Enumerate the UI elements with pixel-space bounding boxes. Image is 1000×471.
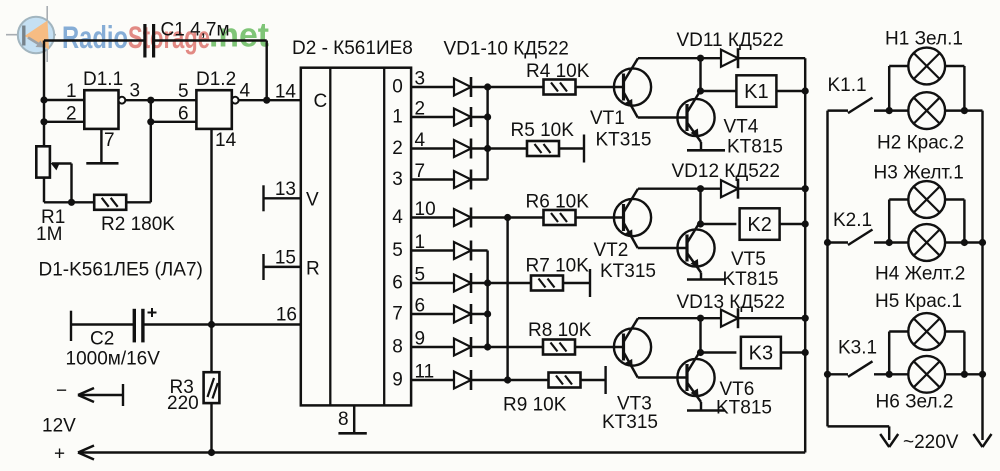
relay K2 [701,208,809,240]
switch contact K3.1 [828,361,873,377]
svg-text:KT315: KT315 [596,130,652,151]
label R8 10K [528,320,592,341]
svg-text:D1.1: D1.1 [83,69,123,90]
svg-text:D2 - К561ИЕ8: D2 - К561ИЕ8 [292,38,413,59]
wire lamp pair loop [889,200,964,243]
label 1000м/16V [66,349,161,370]
svg-text:VT1: VT1 [590,108,625,129]
svg-text:R2 180K: R2 180K [101,214,175,235]
pin label 16 [276,305,297,326]
svg-text:R6 10K: R6 10K [526,192,590,213]
pin label 14 clock [275,82,297,103]
ground at power transistor emitter [687,149,725,152]
IC output label 0 [392,77,403,98]
wire D1.1 input pin 1 [40,96,84,103]
svg-text:4: 4 [240,81,251,102]
wire relay supply rail to +12V [804,58,806,452]
svg-text:R4 10K: R4 10K [526,61,590,82]
label C1 4,7м [161,20,230,41]
label K3.1 [838,338,877,359]
svg-text:7: 7 [392,304,403,325]
wire and stub pin 15 R input [264,254,301,280]
svg-text:H2 Крас.2: H2 Крас.2 [877,133,964,154]
svg-text:8: 8 [392,337,403,358]
IC input label V [306,190,319,211]
decorative watermark logo RadioStorage.net [6,6,269,62]
wire and stub pin 13 V input [264,185,301,211]
svg-text:K1.1: K1.1 [828,75,867,96]
label H5 Крас.1 [875,291,962,312]
pin label 5 [415,265,426,286]
svg-text:+: + [54,444,65,465]
label VT5 [731,249,766,270]
label H4 Желт.2 [875,264,965,285]
node diode cathode on supply rail [0,0,1,1]
wire lamp pair feed [874,371,986,378]
svg-text:15: 15 [275,248,296,269]
diode VD7 [411,273,488,293]
pin label 4 [240,81,251,102]
svg-text:R7 10K: R7 10K [526,256,590,277]
svg-text:~220V: ~220V [903,432,959,453]
label VT2 [594,240,629,261]
svg-text:16: 16 [276,305,297,326]
svg-text:KT315: KT315 [602,412,658,433]
label VT1 [590,108,625,129]
resistor R8 10K [488,340,624,355]
svg-text:V: V [306,190,319,211]
wire D1.2 output to counter clock node [239,97,301,104]
capacitor C1 [145,24,154,58]
svg-text:H1 Зел.1: H1 Зел.1 [885,29,963,50]
svg-text:13: 13 [275,179,296,200]
svg-text:5: 5 [392,240,403,261]
svg-text:K2.1: K2.1 [833,210,872,231]
pin label 1 [66,81,77,102]
pin label 2 [415,99,426,120]
label D1-K561ЛЕ5 (ЛА7) [39,260,203,281]
svg-text:14: 14 [215,130,237,151]
bus diodes VD5 VD10 common [504,214,511,384]
svg-text:R: R [306,259,320,280]
svg-text:3: 3 [130,81,141,102]
IC output label 9 [392,370,403,391]
IC output label 8 [392,337,403,358]
pin label 5 [178,81,189,102]
svg-text:VT4: VT4 [724,117,759,138]
label K1.1 [828,75,867,96]
svg-text:K3.1: K3.1 [838,338,877,359]
IC output label 7 [392,304,403,325]
label R1 [41,207,65,228]
resistor R3 220 vertical [204,325,220,453]
resistor R4 10K [488,80,624,95]
lamp H5 top [908,313,945,350]
node diode cathode on supply rail [802,315,809,322]
label 1M [36,224,62,245]
IC D2 counter K561IE8 body [301,68,411,406]
svg-text:C1 4,7м: C1 4,7м [161,20,230,41]
svg-text:KT815: KT815 [723,269,779,290]
svg-text:KT315: KT315 [600,261,656,282]
wire counter pin 16 [212,323,301,325]
diode VD1 [411,77,488,97]
svg-text:3: 3 [392,169,403,190]
pin label 14 of D1.2 [215,130,237,151]
IC input label C [314,91,328,112]
label C2 [90,329,114,350]
pin label 3 [130,81,141,102]
svg-text:220: 220 [167,393,199,414]
svg-text:VT5: VT5 [731,249,766,270]
ground at power transistor emitter [687,278,725,281]
svg-text:5: 5 [178,81,189,102]
bus diodes VD1-VD4 common [484,83,491,179]
svg-text:1M: 1M [36,224,62,245]
label KT815 [716,398,772,419]
label R9 10K [503,395,567,416]
relay K1 [701,75,809,107]
wire switch bus 220V left [824,111,898,447]
svg-text:VD13 КД522: VD13 КД522 [677,292,785,313]
IC output label 6 [392,273,403,294]
svg-text:H4 Желт.2: H4 Желт.2 [875,264,965,285]
svg-text:8: 8 [338,409,349,430]
diode VD11 [701,48,806,68]
diode VD10 [411,370,508,390]
logic gate D1.2 [196,90,238,129]
diode VD6 [411,241,488,261]
pin label 7 [415,161,426,182]
IC output label 5 [392,240,403,261]
svg-text:K2: K2 [747,214,771,236]
bus diodes VD6-VD9 common [484,251,491,351]
ground at IC pin 8 [338,405,366,433]
label KT815 [727,137,783,158]
lamp H4 bottom [908,224,945,261]
svg-text:D1.2: D1.2 [196,69,236,90]
label KT315 [596,130,652,151]
svg-text:12V: 12V [42,416,76,437]
svg-text:K1: K1 [744,81,768,103]
label VD12 КД522 [672,161,780,182]
label H6 Зел.2 [876,392,954,413]
pin label 13 [275,179,296,200]
IC output label 1 [392,107,403,128]
svg-text:C: C [314,91,328,112]
svg-text:H5 Крас.1: H5 Крас.1 [875,291,962,312]
resistor R5 10K with stub [488,135,584,163]
svg-text:0: 0 [392,77,403,98]
pin label 6 [415,296,426,317]
svg-text:1: 1 [66,81,77,102]
svg-text:KT815: KT815 [727,137,783,158]
terminal minus 12V [56,381,123,407]
pin label 9 [415,329,426,350]
svg-text:D1-K561ЛЕ5 (ЛА7): D1-K561ЛЕ5 (ЛА7) [39,260,203,281]
terminal plus 12V and bottom supply rail [54,444,805,465]
diode VD2 [411,107,488,127]
wire D1.2 pin 14 supply down to C2 node [210,129,212,325]
label H1 Зел.1 [885,29,963,50]
svg-text:14: 14 [275,82,297,103]
label KT815 [723,269,779,290]
diode VD12 [701,179,806,199]
label H3 Желт.1 [874,163,964,184]
diode VD3 [411,139,488,159]
pin label 4 [415,130,426,151]
svg-text:4: 4 [392,207,403,228]
pin label 6 [178,104,189,125]
label H2 Крас.2 [877,133,964,154]
svg-text:2: 2 [66,104,77,125]
label VD1-10 КД522 [444,39,569,60]
pin label 1 [415,232,426,253]
label 220 [167,393,199,414]
transistor VT2 KT315 [614,189,651,248]
label ~220V [903,432,959,453]
IC input label R [306,259,320,280]
transistor VT4 KT815 [677,58,714,150]
resistor R2 180K [94,195,151,210]
svg-text:H6 Зел.2: H6 Зел.2 [876,392,954,413]
ground at power transistor emitter [687,409,725,412]
transistor VT3 KT315 [614,318,651,377]
wire emitter to base of power transistor [638,116,687,118]
pin label 10 [415,199,436,220]
IC output label 3 [392,169,403,190]
potentiometer R1 1M [36,146,94,206]
wire lamp pair feed [874,239,986,246]
lamp H3 top [908,181,945,218]
svg-text:1000м/16V: 1000м/16V [66,349,161,370]
wire lamp pair loop [889,66,964,111]
label K2.1 [833,210,872,231]
wire lamp pair loop [889,332,964,375]
resistor R6 10K [508,210,624,225]
wire lamp pair feed [874,107,983,114]
relay K3 [701,337,809,369]
wire collector to relay diode anode [638,185,704,192]
diode VD8 [411,304,488,324]
lamp H2 bottom [908,92,945,129]
svg-text:Radio: Radio [62,19,128,55]
svg-text:VD12 КД522: VD12 КД522 [672,161,780,182]
switch contact K1.1 [828,98,873,114]
ground at D1.1 pin 7 [86,129,118,163]
diode VD13 [701,308,806,328]
svg-text:H3 Желт.1: H3 Желт.1 [874,163,964,184]
svg-text:KT815: KT815 [716,398,772,419]
wire right 220V rail [974,111,992,447]
label VT4 [724,117,759,138]
wire emitter to base of power transistor [638,247,687,249]
svg-text:1: 1 [392,107,403,128]
resistor R9 10K with stub [508,366,606,394]
label KT315 [602,412,658,433]
wire top feedback from node to C1 and down to D1.2 output node [44,41,267,147]
label R7 10K [526,256,590,277]
label D1.2 [196,69,236,90]
svg-text:VT2: VT2 [594,240,629,261]
svg-text:7: 7 [104,130,115,151]
pin label 2 [66,104,77,125]
pin label 11 [415,362,435,383]
label R3 [170,377,194,398]
pin label 8 [338,409,349,430]
label R6 10K [526,192,590,213]
transistor VT5 KT815 [677,189,714,280]
pin label 15 [275,248,296,269]
diode VD5 [411,208,508,228]
label VD13 КД522 [677,292,785,313]
wire D1.1 input pin 2 [40,118,84,125]
svg-text:VD1-10 КД522: VD1-10 КД522 [444,39,569,60]
svg-text:K3: K3 [749,343,773,365]
transistor VT1 KT315 [614,58,651,117]
IC output label 2 [392,138,403,159]
transistor VT6 KT815 [677,318,714,410]
svg-text:C2: C2 [90,329,114,350]
label R5 10K [511,120,575,141]
pin label 3 [415,69,426,90]
label D1.1 [83,69,123,90]
label R4 10K [526,61,590,82]
capacitor C2 1000м/16V [71,308,212,342]
wire emitter to base of power transistor [638,376,687,378]
label KT315 [600,261,656,282]
wire D1.1 output to D1.2 inputs [125,97,196,203]
wire collector to relay diode anode [638,55,704,62]
svg-text:6: 6 [392,273,403,294]
label 12V [42,416,76,437]
svg-text:−: − [56,381,67,402]
svg-text:VD11 КД522: VD11 КД522 [677,30,784,51]
node supply junction [208,321,215,328]
diode VD9 [411,337,488,357]
svg-text:R5 10K: R5 10K [511,120,575,141]
label VT6 [720,379,755,400]
lamp H1 top [908,48,945,85]
svg-text:R8 10K: R8 10K [528,320,592,341]
label VD11 КД522 [677,30,784,51]
label D2 - К561ИЕ8 [292,38,413,59]
switch contact K2.1 [828,230,873,246]
wire collector to relay diode anode [638,315,704,322]
resistor R7 10K with stub [488,269,590,297]
svg-text:9: 9 [392,370,403,391]
pin label 7 [104,130,115,151]
logic gate D1.1 [84,90,125,129]
IC output label 4 [392,207,403,228]
node diode cathode on supply rail [802,185,809,192]
label VT3 [617,394,652,415]
svg-text:R9 10K: R9 10K [503,395,567,416]
diode VD4 [411,170,488,190]
svg-text:6: 6 [178,104,189,125]
label R2 180K [101,214,175,235]
lamp H6 bottom [908,356,945,393]
svg-text:2: 2 [392,138,403,159]
